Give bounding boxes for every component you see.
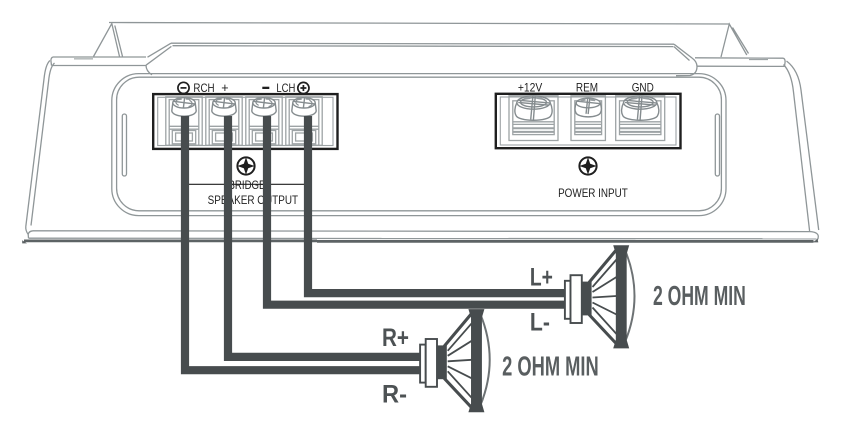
svg-text:L+: L+ — [530, 264, 553, 292]
wire LCH+ (speaker L+) — [308, 116, 566, 293]
terminal SPK2 — [206, 97, 242, 146]
left panel slot — [122, 114, 126, 176]
wire RCH- (speaker R-) — [185, 116, 420, 370]
chassis screw right — [579, 157, 596, 174]
svg-text:2 OHM MIN: 2 OHM MIN — [502, 350, 599, 381]
svg-text:RCH: RCH — [193, 81, 214, 95]
left heatsink fin — [94, 24, 123, 57]
svg-text:POWER INPUT: POWER INPUT — [558, 186, 628, 200]
svg-text:R-: R- — [382, 381, 407, 409]
bridge bracket line — [186, 183, 306, 185]
power input terminal block — [496, 94, 681, 148]
terminal REM — [571, 96, 605, 141]
left top rail — [51, 57, 146, 66]
svg-text:REM: REM — [576, 81, 598, 95]
chassis screw left — [237, 157, 254, 174]
wire right bevel — [674, 44, 697, 75]
wire LCH- (speaker L-) — [267, 116, 566, 305]
label - (LCH) — [262, 87, 269, 89]
amplifier chassis outline — [22, 23, 819, 244]
svg-text:+12V: +12V — [518, 81, 542, 95]
wire top band edges — [171, 43, 674, 46]
label minus-in-circle (RCH -) — [178, 82, 189, 93]
svg-text:GND: GND — [632, 81, 654, 95]
svg-text:BRIDGE: BRIDGE — [229, 178, 266, 192]
svg-text:R+: R+ — [382, 324, 409, 352]
wire bottom skirt — [33, 230, 810, 233]
wire right outer edge — [784, 61, 819, 231]
svg-text:+: + — [221, 81, 228, 95]
right heatsink fin — [721, 24, 749, 57]
svg-text:LCH: LCH — [276, 81, 295, 95]
svg-text:L-: L- — [530, 309, 550, 337]
wire bottom lip — [24, 240, 814, 243]
label plus-in-circle (LCH +) — [298, 82, 309, 93]
wire RCH+ (speaker R+) — [228, 116, 420, 357]
speaker output terminal block — [153, 94, 337, 149]
right top rail — [695, 58, 785, 67]
wire left outer edge — [26, 61, 55, 227]
speaker L — [565, 245, 635, 348]
terminal GND — [616, 96, 665, 141]
speaker R — [420, 309, 490, 412]
right panel slot — [715, 114, 719, 176]
wire rear top edge — [109, 23, 729, 25]
terminal SPK1 — [166, 97, 202, 146]
svg-text:2 OHM MIN: 2 OHM MIN — [653, 280, 746, 311]
terminal SPK3 — [246, 97, 282, 146]
terminal +12V — [509, 96, 558, 141]
terminal SPK4 — [286, 97, 322, 146]
amplifier front panel recess — [112, 74, 726, 216]
svg-text:SPEAKER OUTPUT: SPEAKER OUTPUT — [208, 193, 299, 207]
wire left bevel — [146, 43, 171, 75]
